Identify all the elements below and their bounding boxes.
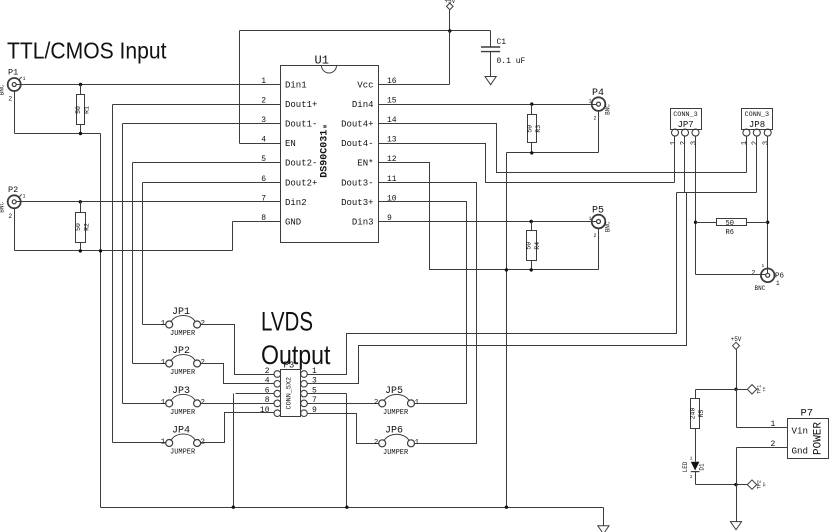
junction R3 top (530, 102, 533, 105)
svg-text:1: 1 (161, 320, 166, 328)
svg-text:R3: R3 (535, 125, 542, 133)
svg-text:Output: Output (261, 340, 331, 370)
svg-text:JUMPER: JUMPER (170, 330, 196, 338)
wire P1 shield down (14, 91, 16, 134)
wire EN* pin12 to ground (379, 163, 599, 270)
svg-text:240: 240 (690, 408, 697, 420)
svg-text:Dout1+: Dout1+ (285, 100, 317, 110)
wire +5V horizontal rail y=31 (240, 30, 491, 32)
svg-text:CONN_5X2: CONN_5X2 (286, 377, 294, 410)
junction TP2 (734, 483, 737, 486)
svg-text:1: 1 (588, 216, 591, 222)
svg-text:JP3: JP3 (172, 386, 190, 397)
connector P3 value CONN_5X2 (286, 377, 294, 410)
wire Dout2+ to JP1 pin1 (143, 324, 166, 326)
svg-text:JUMPER: JUMPER (170, 369, 196, 377)
svg-text:50: 50 (526, 242, 533, 250)
wire Dout2+ pin6 (143, 182, 281, 184)
wire P3 pin1 net (308, 193, 677, 375)
resistor R5 (690, 390, 706, 462)
svg-text:R1: R1 (84, 106, 91, 114)
BNC connector P6 (752, 263, 785, 292)
power symbol +5V (top) (444, 0, 455, 10)
junction R1 bottom (79, 132, 82, 135)
jumper JP1 (161, 307, 205, 338)
svg-text:Dout4-: Dout4- (341, 139, 373, 149)
connector P3 pin numbers (260, 367, 317, 415)
svg-text:GND: GND (285, 218, 301, 228)
svg-text:+5V: +5V (731, 336, 742, 343)
svg-text:JP6: JP6 (385, 426, 403, 437)
svg-text:CONN_3: CONN_3 (673, 111, 697, 119)
svg-text:JP2: JP2 (172, 346, 190, 357)
svg-text:Dout4+: Dout4+ (341, 120, 373, 130)
svg-text:1: 1 (161, 399, 166, 407)
wire P1 shield horizontal (15, 133, 101, 135)
wire Dout4- pin13 to JP7 pin1 (379, 144, 675, 183)
wire Dout2- pin5 (133, 162, 281, 164)
svg-text:JUMPER: JUMPER (383, 409, 409, 417)
wire Vcc vertical (449, 31, 451, 85)
wire JP8 pin3 stub (767, 137, 769, 274)
wire ground bus left vertical (100, 134, 102, 508)
ground symbol bottom (598, 526, 609, 532)
junction R2 top (79, 200, 82, 203)
wire GND row y=250.9 (15, 250, 233, 252)
BNC connector P5 (588, 206, 611, 239)
resistor R3 (526, 105, 542, 153)
testpoint TP1 (747, 385, 767, 394)
svg-text:DS90C031: DS90C031 (320, 130, 331, 178)
svg-text:BNC: BNC (605, 221, 612, 232)
wire P1 to Din1 pin1 (17, 84, 281, 86)
svg-text:LVDS: LVDS (261, 307, 313, 337)
connector P3 refdes (284, 361, 295, 371)
wire Vin pin1 (737, 420, 788, 429)
svg-text:3: 3 (690, 141, 698, 145)
svg-text:1: 1 (161, 439, 166, 447)
wire C1 top (490, 31, 492, 47)
resistor R1 (75, 85, 91, 134)
junction R1 top (79, 83, 82, 86)
wire GND to pin 8 (233, 221, 281, 223)
wire Dout2- to JP2 pin1 (133, 363, 166, 365)
jumper JP4 (161, 425, 205, 456)
ground under C1 (485, 77, 496, 85)
svg-text:3: 3 (763, 141, 771, 145)
svg-text:2: 2 (690, 474, 693, 480)
svg-text:JP5: JP5 (385, 386, 403, 397)
wire P5 shield down (598, 229, 600, 270)
wire Gnd pin2 (737, 440, 788, 449)
wire JP7 pin2 - JP8 pin2 link (677, 192, 757, 194)
wire Dout4+ pin14 to JP8 pin1 (379, 124, 747, 173)
svg-text:BNC: BNC (0, 202, 6, 213)
junction rail right gnd bus (505, 506, 508, 509)
power symbol +5V (bottom) (731, 336, 742, 349)
wire rail gnd stub (603, 508, 605, 526)
junction +5V rail / Vcc (448, 29, 451, 32)
wire C1 bottom (490, 52, 492, 77)
wire JP2 pin2 to P3 pin4 (201, 364, 275, 384)
jumper JP6 (374, 426, 420, 457)
svg-text:JUMPER: JUMPER (170, 409, 196, 417)
connector P7 labels (792, 422, 825, 457)
jumper JP2 (161, 346, 205, 377)
svg-text:R6: R6 (726, 229, 734, 237)
wire P3 pin9 to JP6 pin2 (308, 414, 379, 444)
wire JP8 pin1 stub (746, 137, 748, 173)
svg-text:R5: R5 (698, 410, 705, 418)
wire Dout1- bus down (122, 124, 124, 404)
wire P2 shield down (14, 209, 16, 251)
svg-text:JP8: JP8 (749, 120, 765, 130)
wire JP4 pin2 to P3 pin10 (201, 413, 275, 443)
svg-text:2: 2 (9, 213, 13, 220)
wire P3 pin6 to ground bus (234, 394, 275, 508)
svg-text:10: 10 (260, 406, 270, 415)
svg-text:BNC: BNC (755, 285, 766, 292)
IC U1 body (281, 66, 379, 243)
svg-text:P5: P5 (592, 206, 604, 217)
BNC connector P2 (0, 185, 26, 220)
wire right ground bus vertical (506, 153, 508, 508)
svg-text:JP1: JP1 (172, 307, 190, 318)
svg-text:EN: EN (285, 139, 296, 149)
junction R4 bottom (530, 268, 533, 271)
svg-text:1: 1 (415, 439, 420, 447)
wire Dout2- bus down (132, 163, 134, 364)
wire JP6 pin1 to Dout3- pin11 (379, 183, 477, 444)
svg-text:P3: P3 (284, 361, 295, 371)
svg-text:2: 2 (9, 96, 13, 103)
svg-text:BNC: BNC (0, 84, 6, 95)
wire JP7 pin1 stub (674, 137, 676, 183)
svg-text:U1: U1 (315, 54, 329, 68)
wire P3 pin5 to ground bus (308, 394, 347, 508)
svg-text:6: 6 (265, 386, 270, 395)
svg-text:16: 16 (387, 77, 397, 86)
svg-text:Dout1-: Dout1- (285, 120, 317, 130)
junction R4 top (530, 220, 533, 223)
junction R3 bottom (530, 151, 533, 154)
connector JP7 (670, 109, 702, 146)
svg-text:0.1 uF: 0.1 uF (497, 57, 526, 66)
title text TTL/CMOS Input (7, 38, 167, 64)
svg-text:JUMPER: JUMPER (170, 449, 196, 457)
svg-text:50: 50 (75, 106, 82, 114)
capacitor C1 (481, 38, 526, 66)
svg-text:Vcc: Vcc (357, 81, 373, 91)
wire TP2 row (696, 484, 748, 486)
BNC connector P4 (588, 88, 611, 121)
svg-text:TP1: TP1 (757, 385, 763, 394)
svg-text:2: 2 (752, 269, 756, 276)
junction R2 bottom (79, 249, 82, 252)
svg-text:LED: LED (682, 461, 689, 472)
IC U1 refdes (315, 54, 329, 68)
connector JP8 (741, 109, 772, 146)
svg-text:+5V: +5V (444, 0, 455, 5)
wire Din3 pin9 to P5 (379, 221, 597, 223)
svg-text:P7: P7 (801, 408, 814, 420)
svg-text:D1: D1 (699, 463, 706, 471)
IC U1 pin numbers (261, 77, 397, 223)
jumper JP5 (374, 386, 420, 417)
IC U1 pin names (285, 81, 374, 228)
wire Din4 pin15 to P4 (379, 104, 597, 106)
svg-text:P1: P1 (8, 68, 18, 78)
svg-text:1: 1 (741, 141, 749, 145)
wire Dout1+ to JP4 pin1 (113, 442, 166, 444)
wire bottom ground rail (101, 507, 604, 509)
svg-text:1: 1 (588, 99, 591, 105)
svg-text:CONN_3: CONN_3 (745, 111, 769, 119)
svg-text:EN*: EN* (357, 159, 373, 169)
wire P6 pin2 left (696, 274, 766, 276)
svg-text:1: 1 (23, 76, 26, 82)
svg-text:TTL/CMOS Input: TTL/CMOS Input (7, 38, 167, 64)
junction rail P3pin6 bus (232, 506, 235, 509)
svg-text:P2: P2 (8, 185, 18, 195)
junction gnd bus (99, 249, 102, 252)
wire JP1 pin2 to P3 pin2 (201, 325, 275, 375)
wire JP7 pin3 stub (695, 137, 697, 275)
svg-text:50: 50 (526, 125, 533, 133)
wire P4 shield down (598, 111, 600, 153)
resistor R2 (75, 202, 91, 251)
svg-text:Din2: Din2 (285, 198, 307, 208)
svg-text:1: 1 (771, 420, 776, 429)
wire +5V stub down (449, 10, 451, 31)
LED D1 (682, 456, 706, 480)
svg-text:2: 2 (593, 116, 596, 122)
svg-text:2: 2 (374, 439, 379, 447)
BNC connector P1 (0, 68, 26, 103)
svg-text:Dout2+: Dout2+ (285, 178, 317, 188)
svg-text:Din3: Din3 (352, 218, 374, 228)
svg-text:2: 2 (680, 141, 688, 145)
svg-text:2: 2 (374, 399, 379, 407)
title text LVDS Output (261, 307, 331, 371)
wire P3 pin3 net (308, 193, 687, 384)
svg-text:2: 2 (593, 233, 596, 239)
wire TP1 row (696, 389, 748, 391)
svg-text:POWER: POWER (813, 422, 825, 455)
svg-text:1: 1 (161, 359, 166, 367)
svg-text:P4: P4 (592, 88, 604, 99)
connector P7 body (788, 419, 829, 459)
svg-text:Dout2-: Dout2- (285, 159, 317, 169)
wire Vcc to pin 16 (379, 84, 450, 86)
svg-text:3: 3 (312, 377, 317, 386)
svg-text:4: 4 (261, 136, 266, 145)
svg-text:50: 50 (75, 223, 82, 231)
wire JP8 pin2 stub (756, 137, 758, 193)
wire +5V to TP1 row (736, 350, 738, 390)
svg-text:TP: TP (764, 386, 768, 391)
junction R6 right (766, 221, 769, 224)
wire EN tie-high vertical (239, 31, 241, 144)
junction TP1 (734, 388, 737, 391)
testpoint TP2 (747, 480, 767, 489)
svg-text:2: 2 (771, 440, 776, 449)
connector P7 refdes (801, 408, 814, 420)
wire LED to TP2 row (695, 472, 697, 485)
wire Dout2+ bus down (142, 183, 144, 325)
svg-text:JP7: JP7 (678, 120, 694, 130)
svg-text:Gnd: Gnd (792, 446, 809, 457)
resistor R6 (696, 219, 768, 237)
svg-text:R4: R4 (534, 242, 541, 250)
svg-text:Din1: Din1 (285, 81, 307, 91)
svg-text:1: 1 (670, 141, 678, 145)
connector P3 body (274, 370, 307, 417)
junction R6 left (694, 221, 697, 224)
svg-text:1: 1 (23, 193, 26, 199)
svg-text:8: 8 (265, 396, 270, 405)
wire P2 to Din2 pin7 (17, 201, 281, 203)
wire JP5 pin1 to Dout3+ pin10 (379, 202, 467, 404)
svg-text:TP2: TP2 (757, 480, 763, 489)
svg-text:50: 50 (726, 220, 734, 228)
jumper JP3 (161, 386, 205, 417)
wire Dout1- pin3 (123, 123, 281, 125)
svg-text:JUMPER: JUMPER (383, 449, 409, 457)
svg-text:BNC: BNC (605, 104, 612, 115)
svg-text:2: 2 (752, 141, 760, 145)
wire GND pin8 drop (232, 222, 234, 251)
svg-text:1: 1 (690, 456, 693, 462)
wire Dout1+ bus down (112, 105, 114, 443)
svg-text:1: 1 (776, 280, 780, 287)
wire Dout1- to JP3 pin1 (123, 403, 166, 405)
junction rail P3pin5 bus (345, 506, 348, 509)
wire P3 pin7 to JP5 pin2 (308, 403, 379, 405)
wire +5V to Vin (736, 390, 738, 428)
svg-text:2: 2 (265, 367, 270, 376)
svg-text:Dout3-: Dout3- (341, 178, 373, 188)
svg-text:Vin: Vin (792, 426, 809, 437)
resistor R4 (526, 222, 542, 270)
svg-text:R2: R2 (83, 223, 90, 231)
svg-text:Dout3+: Dout3+ (341, 198, 373, 208)
wire EN to pin 4 (240, 143, 281, 145)
svg-text:4: 4 (265, 377, 270, 386)
svg-text:JP4: JP4 (172, 425, 190, 436)
wire JP7 pin2 stub (684, 137, 686, 193)
wire Dout1+ pin2 (113, 104, 281, 106)
svg-text:C1: C1 (497, 38, 507, 47)
svg-text:1: 1 (762, 263, 765, 269)
wire JP3 pin2 to P3 pin8 (201, 403, 275, 405)
svg-text:TP: TP (764, 482, 768, 487)
svg-text:Din4: Din4 (352, 100, 374, 110)
wire P4 shield gnd row y=152.9 (507, 152, 599, 154)
ground symbol power entry (730, 522, 741, 530)
svg-text:5: 5 (312, 386, 317, 395)
wire Gnd down to ground (736, 448, 738, 522)
IC U1 value DS90C031 (320, 124, 331, 178)
junction EN* gnd bus (505, 268, 508, 271)
